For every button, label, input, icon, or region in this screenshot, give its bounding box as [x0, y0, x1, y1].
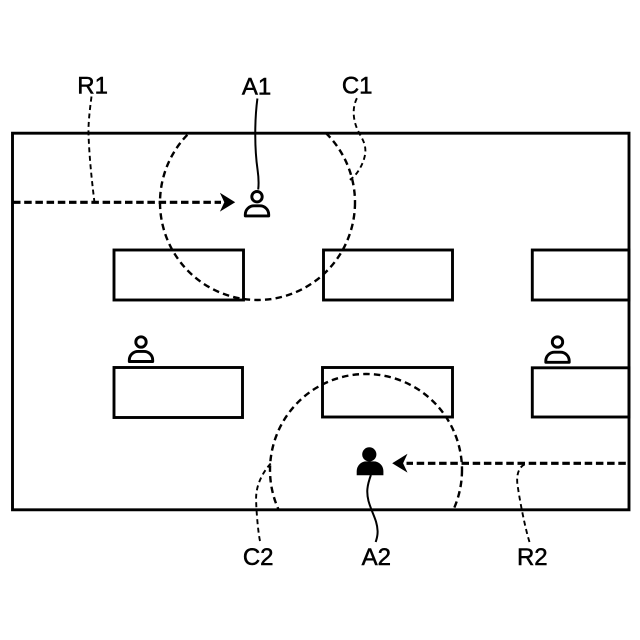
svg-text:R1: R1 [77, 73, 108, 100]
svg-text:R2: R2 [517, 544, 548, 571]
svg-text:A2: A2 [362, 544, 391, 571]
person icon A1 (outline, in circle C1) [245, 192, 268, 216]
dashed arrow route R2 (right to left) [392, 454, 626, 473]
desk row1 middle [324, 250, 453, 300]
svg-text:C1: C1 [342, 73, 373, 100]
leader line C1 (dashed) [350, 98, 366, 180]
desk row1 left [114, 250, 244, 300]
leader line A2 (solid) [367, 475, 377, 542]
desk row1 right [532, 250, 629, 300]
person icon row2 right (outline) [546, 337, 569, 363]
leader line A1 (solid) [255, 99, 258, 190]
svg-text:A1: A1 [242, 74, 271, 101]
desk row2 right [532, 368, 629, 417]
leader line R2 (dashed) [517, 464, 529, 542]
leader line R1 (dashed) [88, 97, 94, 202]
svg-text:C2: C2 [243, 544, 274, 571]
dashed arrow route R1 (left to right) [13, 193, 235, 212]
person icon A2 (filled, in circle C2) [357, 447, 384, 475]
room rectangle [13, 133, 630, 510]
desk row2 left [114, 368, 243, 418]
circle C2 (dashed detection area, clipped by room bottom wall) [270, 374, 462, 566]
desk row2 middle [323, 368, 453, 418]
person icon row2 left (outline) [129, 337, 152, 362]
circle C1 (dashed detection area, clipped by room top wall) [160, 105, 355, 300]
leader line C2 (dashed) [256, 462, 272, 541]
